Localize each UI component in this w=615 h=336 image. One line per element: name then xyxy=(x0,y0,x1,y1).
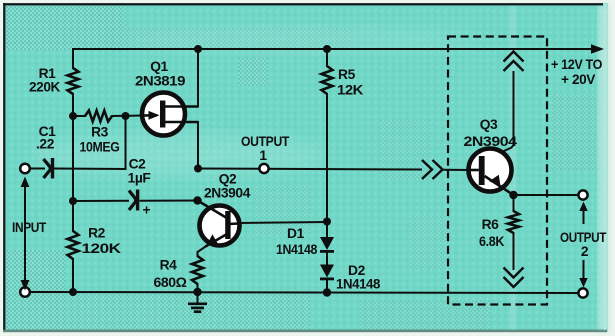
svg-text:OUTPUT: OUTPUT xyxy=(560,230,607,245)
svg-text:.22: .22 xyxy=(36,137,55,152)
svg-text:Q2: Q2 xyxy=(219,172,237,187)
svg-text:INPUT: INPUT xyxy=(12,220,47,235)
svg-text:2: 2 xyxy=(581,244,589,259)
svg-text:10MEG: 10MEG xyxy=(80,140,120,155)
svg-text:Q1: Q1 xyxy=(150,59,168,74)
svg-text:+ 20V: + 20V xyxy=(561,72,596,87)
svg-text:680Ω: 680Ω xyxy=(154,275,187,290)
svg-text:R6: R6 xyxy=(482,217,500,232)
svg-text:1: 1 xyxy=(259,148,267,163)
svg-text:R2: R2 xyxy=(88,226,106,241)
svg-text:+: + xyxy=(143,203,151,218)
svg-text:C2: C2 xyxy=(129,157,147,172)
svg-text:R4: R4 xyxy=(160,258,178,273)
svg-text:2N3904: 2N3904 xyxy=(204,186,251,201)
svg-text:R3: R3 xyxy=(91,125,109,140)
svg-text:Q3: Q3 xyxy=(480,117,498,132)
svg-text:12K: 12K xyxy=(337,83,363,98)
svg-text:1N4148: 1N4148 xyxy=(276,242,318,257)
svg-text:1N4148: 1N4148 xyxy=(336,277,381,292)
svg-text:2N3819: 2N3819 xyxy=(135,74,186,89)
svg-text:6.8K: 6.8K xyxy=(479,234,504,249)
svg-text:+ 12V TO: + 12V TO xyxy=(551,57,603,72)
svg-text:D1: D1 xyxy=(287,226,305,241)
svg-text:1µF: 1µF xyxy=(128,171,151,186)
svg-text:120K: 120K xyxy=(82,241,122,256)
svg-text:OUTPUT: OUTPUT xyxy=(241,134,290,149)
svg-text:2N3904: 2N3904 xyxy=(464,134,518,149)
svg-text:220K: 220K xyxy=(29,80,60,95)
svg-text:R5: R5 xyxy=(338,67,356,82)
